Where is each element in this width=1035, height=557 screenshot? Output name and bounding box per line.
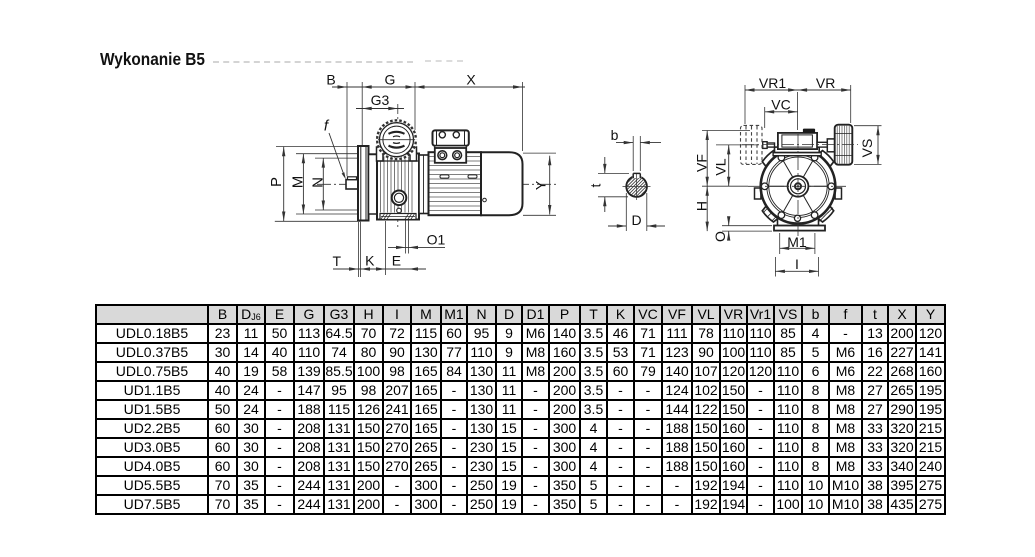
svg-text:E: E xyxy=(392,253,401,269)
svg-text:I: I xyxy=(795,256,799,272)
svg-text:f: f xyxy=(324,118,330,135)
svg-text:X: X xyxy=(466,72,476,88)
svg-text:VS: VS xyxy=(859,139,875,158)
svg-text:M: M xyxy=(290,176,307,189)
svg-text:T: T xyxy=(333,253,342,269)
svg-text:VC: VC xyxy=(771,96,790,112)
svg-text:b: b xyxy=(611,127,619,143)
svg-text:VR: VR xyxy=(816,75,835,91)
svg-text:G: G xyxy=(385,72,396,88)
svg-text:VF: VF xyxy=(694,154,710,172)
svg-text:O: O xyxy=(712,231,728,242)
svg-text:VL: VL xyxy=(713,158,729,175)
svg-text:VR1: VR1 xyxy=(759,75,786,91)
svg-text:t: t xyxy=(588,183,604,187)
svg-text:D: D xyxy=(631,212,641,228)
svg-text:H: H xyxy=(694,201,710,211)
svg-text:G3: G3 xyxy=(371,92,390,108)
svg-text:N: N xyxy=(310,177,327,188)
svg-text:B: B xyxy=(326,72,335,88)
svg-text:K: K xyxy=(365,253,375,269)
svg-text:M1: M1 xyxy=(787,234,807,250)
svg-text:O1: O1 xyxy=(427,232,446,248)
svg-text:P: P xyxy=(268,177,285,187)
svg-text:Y: Y xyxy=(533,180,549,190)
